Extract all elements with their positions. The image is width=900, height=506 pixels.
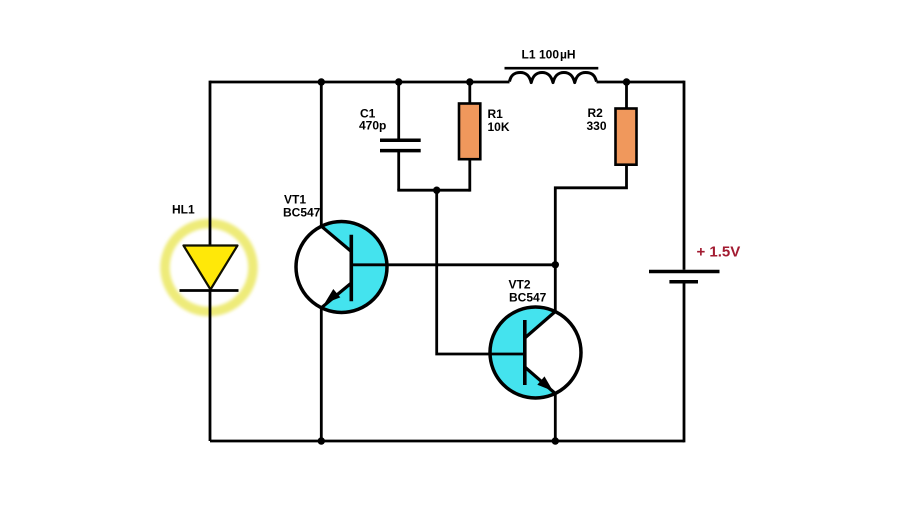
wire R1 bottom lead bbox=[468, 159, 471, 192]
svg-text:R1: R1 bbox=[488, 107, 504, 121]
svg-text:+ 1.5V: + 1.5V bbox=[697, 244, 741, 261]
wire battery negative lead bbox=[683, 284, 686, 443]
wire top rail left segment bbox=[210, 81, 510, 84]
wire R2 bottom lead to VT2 collector bbox=[555, 164, 626, 312]
node VT2 emitter on bottom rail bbox=[552, 437, 559, 444]
transistor VT1 body bbox=[296, 222, 387, 313]
wire LED anode lead bbox=[209, 81, 212, 246]
wire VT2 base link bbox=[437, 190, 526, 354]
resistor R2 bbox=[616, 109, 637, 165]
wire C1 top lead bbox=[397, 82, 400, 139]
node VT1 collector on top rail bbox=[318, 78, 325, 85]
node C1-R1 junction bbox=[433, 187, 440, 194]
LED HL1 diode triangle bbox=[184, 246, 238, 290]
wire C1-R1 junction link bbox=[397, 189, 470, 192]
wire VT1 base line bbox=[351, 263, 555, 266]
wire VT1 collector lead bbox=[320, 82, 323, 228]
wire VT1 emitter lead bbox=[320, 306, 323, 441]
node VT1 base to VT2 collector bbox=[552, 261, 559, 268]
inductor L1 core bar bbox=[505, 67, 599, 70]
capacitor C1 plate top bbox=[380, 138, 421, 142]
transistor VT2 body bbox=[490, 307, 581, 398]
svg-text:µH: µH bbox=[560, 48, 576, 62]
battery G1 negative plate bbox=[669, 280, 698, 284]
wire top rail right segment bbox=[597, 81, 685, 84]
svg-text:HL1: HL1 bbox=[172, 203, 195, 217]
node VT1 emitter on bottom rail bbox=[318, 437, 325, 444]
node C1 on top rail bbox=[395, 78, 402, 85]
svg-text:L1: L1 bbox=[522, 48, 536, 62]
svg-text:VT1: VT1 bbox=[284, 193, 306, 207]
wire R1 top lead bbox=[468, 82, 471, 104]
node R2 on top rail bbox=[623, 78, 630, 85]
capacitor C1 plate bottom bbox=[380, 149, 421, 153]
wire VT2 emitter lead bbox=[554, 393, 557, 441]
svg-text:470p: 470p bbox=[359, 119, 386, 133]
svg-text:10K: 10K bbox=[488, 120, 510, 134]
svg-text:BC547: BC547 bbox=[509, 291, 547, 305]
battery G1 positive plate bbox=[649, 270, 720, 274]
svg-text:R2: R2 bbox=[588, 106, 604, 120]
wire C1 bottom lead bbox=[397, 152, 400, 191]
svg-text:330: 330 bbox=[587, 119, 607, 133]
node R1 on top rail bbox=[466, 78, 473, 85]
svg-text:100: 100 bbox=[539, 48, 559, 62]
svg-text:VT2: VT2 bbox=[509, 278, 531, 292]
svg-text:BC547: BC547 bbox=[283, 206, 321, 220]
LED HL1 glow halo bbox=[165, 224, 253, 312]
wire LED cathode lead bbox=[209, 291, 212, 442]
wire battery positive lead bbox=[683, 81, 686, 270]
LED HL1 cathode bar bbox=[180, 289, 239, 292]
resistor R1 bbox=[459, 104, 480, 160]
wire R2 top lead bbox=[625, 82, 628, 109]
inductor L1 winding bbox=[510, 73, 597, 83]
wire bottom rail bbox=[210, 440, 684, 443]
